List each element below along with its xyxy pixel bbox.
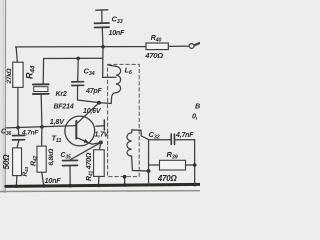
svg-text:6,8kΩ: 6,8kΩ — [48, 149, 55, 166]
svg-text:Kr2: Kr2 — [56, 91, 67, 98]
wire tap stub to coil L6 — [103, 76, 116, 78]
capacitor C32 — [149, 134, 195, 144]
node ground C35 — [68, 184, 72, 188]
inductor L6 — [109, 65, 121, 92]
capacitor C34 — [72, 58, 84, 99]
node collector junction — [97, 101, 101, 105]
resistor R44 — [13, 47, 23, 128]
crystal Kr2 — [33, 84, 49, 127]
svg-text:470Ω: 470Ω — [157, 174, 178, 183]
wire node row to crystal (wire-2) — [44, 57, 103, 59]
wire output left rail — [148, 140, 150, 186]
svg-text:10nF: 10nF — [109, 30, 125, 37]
wire top supply bus — [16, 46, 146, 48]
wire bus to terminal — [168, 45, 188, 47]
resistor R41 — [94, 142, 105, 185]
wire supply vertical to tank tap — [102, 47, 104, 78]
wire down to crystal top — [42, 59, 44, 84]
wire shield ground stub — [124, 177, 126, 185]
resistor R39 — [149, 160, 195, 170]
svg-text:10nF: 10nF — [45, 176, 62, 185]
capacitor C35 — [63, 142, 101, 185]
svg-text:4,7nF: 4,7nF — [21, 129, 39, 136]
svg-text:1,8V: 1,8V — [50, 117, 65, 126]
svg-text:B: B — [195, 102, 200, 111]
node output left rail — [147, 169, 151, 173]
node emitter junction — [99, 141, 103, 145]
node ground R41 — [97, 184, 101, 188]
svg-text:0,: 0, — [192, 112, 198, 121]
svg-text:4,7nF: 4,7nF — [175, 132, 194, 139]
capacitor C33 — [95, 10, 110, 47]
node ground R43 — [15, 184, 19, 188]
capacitor C36 — [13, 128, 25, 148]
resistor R42 — [37, 127, 46, 186]
node junction bus/C33 — [101, 45, 105, 49]
svg-text:50Ω: 50Ω — [2, 154, 11, 170]
wire output right rail — [194, 140, 196, 185]
node base/crystal/R42 junction — [40, 125, 44, 129]
svg-text:1,7V: 1,7V — [95, 132, 110, 139]
wire collector node to coil bottom — [99, 93, 116, 104]
node shield stub top — [123, 175, 127, 179]
svg-text:BF214: BF214 — [54, 104, 74, 111]
wire base — [6, 126, 76, 128]
svg-text:27kΩ: 27kΩ — [6, 68, 13, 84]
wire ground bus — [6, 184, 200, 186]
wire after terminal to edge — [194, 43, 200, 46]
transistor T11 — [65, 103, 105, 146]
shield dashed box — [108, 64, 140, 176]
node shield stub ground — [123, 183, 127, 187]
resistor R40 — [146, 43, 168, 50]
resistor R43 — [13, 148, 22, 186]
wire C34 bottom to collector node — [78, 100, 99, 103]
inductor L7 secondary — [127, 130, 149, 171]
node ground R42 — [42, 184, 46, 188]
node junction C34 top — [76, 57, 80, 61]
node output right ground — [193, 183, 197, 187]
svg-text:47pF: 47pF — [85, 88, 102, 95]
node base/R44 junction — [16, 126, 20, 130]
svg-text:470Ω: 470Ω — [144, 51, 163, 60]
svg-text:10,6V: 10,6V — [83, 108, 102, 115]
terminal output circle — [189, 44, 194, 49]
node R39 right — [193, 163, 197, 167]
